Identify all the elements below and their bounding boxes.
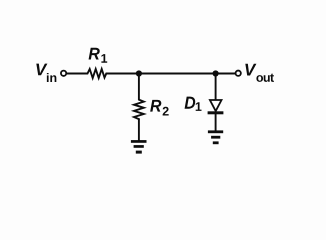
label Vin (V) — [36, 64, 47, 76]
resistor R1 — [88, 69, 107, 78]
label D1 (D) — [185, 97, 196, 109]
ground symbol under D1 — [208, 130, 223, 144]
input terminal circle (Vin) — [61, 71, 66, 76]
label D1 subscript 1 — [196, 102, 202, 111]
wire D1 cathode to ground — [215, 114, 217, 130]
wire R1 to output node — [106, 73, 235, 75]
label R2 (R) — [150, 100, 161, 112]
wire Vin terminal to R1 — [67, 73, 88, 75]
diode D1 cathode bar — [208, 111, 224, 114]
label Vin subscript in — [47, 73, 56, 82]
label R1 (R) — [89, 48, 100, 60]
ground symbol under R2 — [131, 140, 147, 154]
label Vout (V) — [245, 64, 256, 76]
label Vout subscript out — [256, 74, 274, 82]
wire R2 to ground — [138, 119, 140, 140]
wire node B down to D1 anode — [215, 74, 217, 101]
junction dot node A — [136, 70, 142, 76]
junction dot node B — [213, 70, 219, 76]
label R2 subscript 2 — [163, 107, 169, 116]
diode D1 triangle (anode) — [210, 100, 222, 111]
output terminal circle (Vout) — [236, 71, 241, 76]
wire node A down to R2 — [138, 74, 140, 100]
label R1 subscript 1 — [101, 54, 107, 63]
resistor R2 — [134, 100, 144, 120]
